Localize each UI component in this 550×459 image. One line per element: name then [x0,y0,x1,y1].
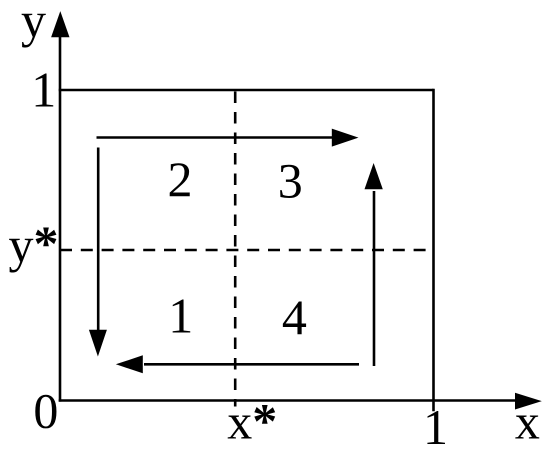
y-axis arrowhead [51,11,69,37]
svg-text:0: 0 [33,383,58,439]
square right edge (tick at 1) [432,89,435,412]
down arrowhead [89,330,107,357]
top arrow shaft (quadrant 2 to 3) [97,136,334,139]
svg-text:y: y [21,0,46,48]
up arrow shaft (quadrant 4 to 3) [373,191,376,366]
svg-text:4: 4 [282,289,307,345]
x-axis [59,399,516,402]
square top edge [59,89,434,92]
left arrowhead [116,355,143,373]
svg-text:1: 1 [423,399,448,455]
up arrowhead [365,163,383,189]
left arrow shaft (quadrant 4 to 1) [144,363,359,366]
svg-text:2: 2 [168,151,193,207]
svg-text:y*: y* [9,215,59,273]
svg-text:x*: x* [227,393,277,450]
top arrowhead [332,129,359,147]
dashed vertical line at x* [234,92,237,407]
dashed horizontal line at y* [60,249,434,252]
x-axis arrowhead [515,393,542,410]
svg-text:1: 1 [168,287,193,343]
svg-text:x: x [515,394,540,450]
svg-text:1: 1 [31,62,56,118]
svg-text:3: 3 [278,152,303,208]
down arrow shaft (quadrant 2 to 1) [97,148,100,332]
y-axis [59,32,62,402]
